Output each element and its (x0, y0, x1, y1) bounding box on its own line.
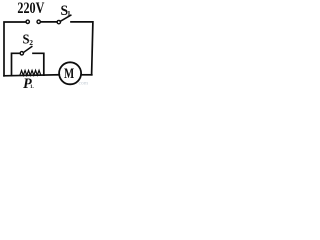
svg-text:2: 2 (29, 38, 33, 47)
svg-text:M: M (64, 65, 74, 82)
svg-text:com: com (79, 81, 89, 87)
svg-text:220V: 220V (17, 0, 45, 17)
svg-text:1: 1 (67, 9, 71, 18)
